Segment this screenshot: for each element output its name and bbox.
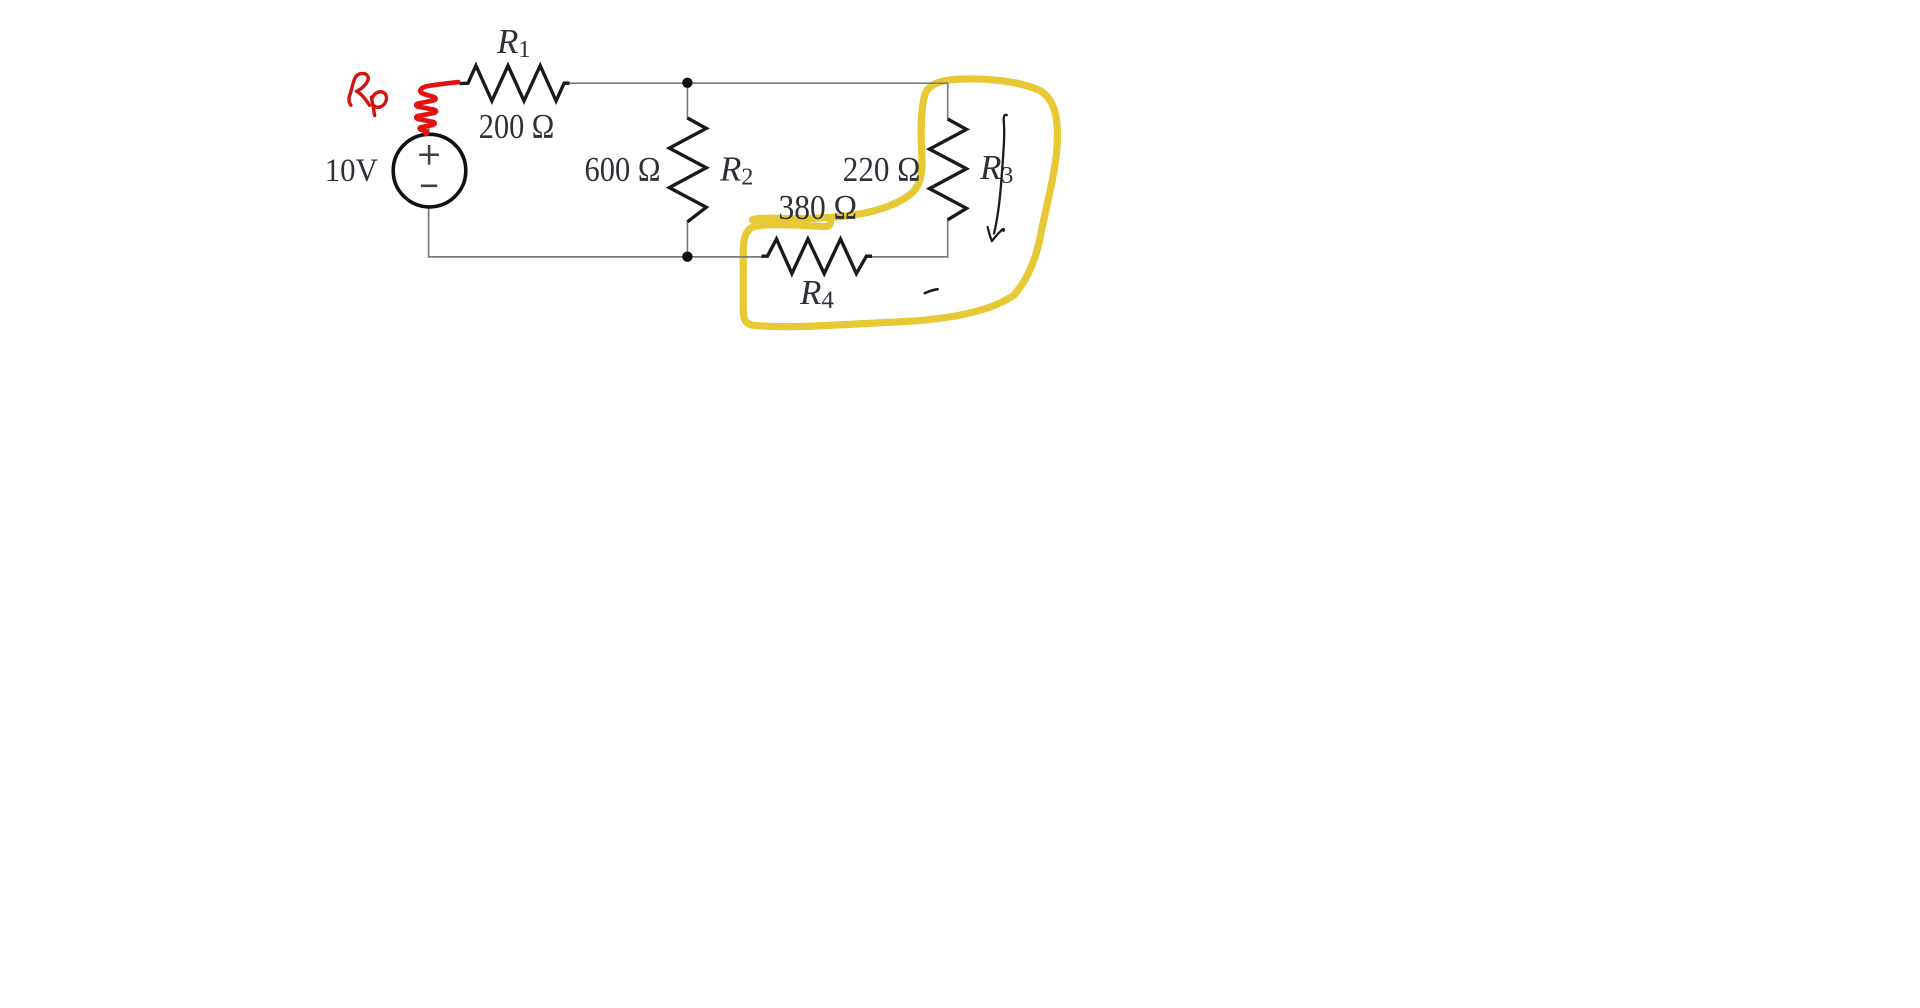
annotation: hand-drawn current arrow beside R3 <box>988 115 1007 241</box>
wire: R2 top lead <box>686 83 688 118</box>
annotation: red handwritten Rp label <box>349 73 387 115</box>
resistor R2 zigzag <box>669 118 706 222</box>
resistor R3 zigzag <box>930 119 967 220</box>
wire: R2 bottom lead <box>686 222 688 257</box>
annotation: small black dash below R3 <box>925 289 938 293</box>
svg-text:220 Ω: 220 Ω <box>843 151 921 189</box>
resistor R4 zigzag <box>762 239 873 274</box>
voltage source plus sign <box>419 145 439 165</box>
svg-text:R2: R2 <box>719 149 753 190</box>
svg-text:200 Ω: 200 Ω <box>479 108 555 146</box>
wire: top horizontal from R1 to R3 <box>564 82 948 84</box>
resistor R1 zigzag <box>460 66 570 101</box>
annotation: yellow highlighter loop around R3 and R4 <box>743 79 1057 327</box>
annotation: red squiggle resistor on source top lead <box>416 82 458 134</box>
node: bottom junction dot <box>682 252 692 262</box>
svg-text:380 Ω: 380 Ω <box>779 189 858 227</box>
wire: R3 top lead <box>947 83 949 119</box>
svg-text:10V: 10V <box>325 153 378 189</box>
wire: source top stub <box>428 126 430 135</box>
svg-text:R3: R3 <box>979 148 1013 189</box>
wire: source bottom to lower rail <box>429 207 768 257</box>
voltage source minus sign <box>421 184 437 187</box>
svg-text:R1: R1 <box>496 22 530 63</box>
node: top junction dot <box>682 78 692 88</box>
svg-text:R4: R4 <box>799 273 834 314</box>
svg-text:600 Ω: 600 Ω <box>585 151 661 189</box>
wire: lower rail right of R4 up to R3 <box>866 220 947 257</box>
voltage source V1 circle <box>393 134 466 207</box>
